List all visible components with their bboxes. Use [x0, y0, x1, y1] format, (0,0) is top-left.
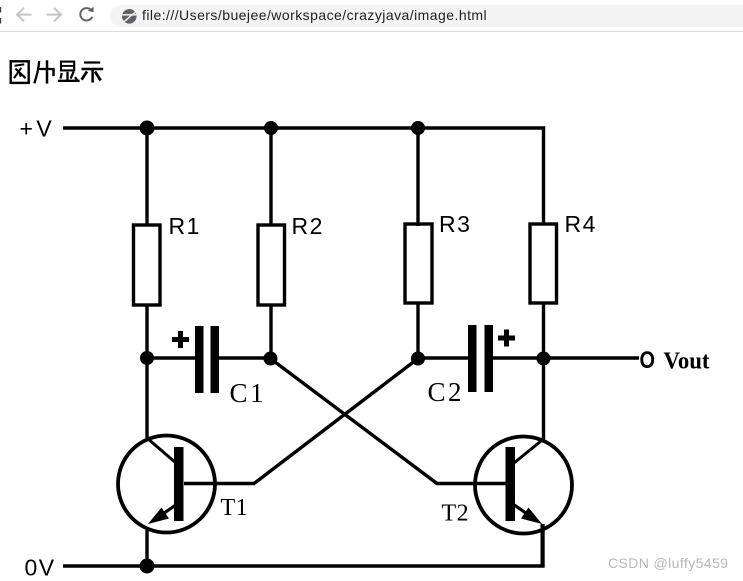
forward arrow [46, 6, 64, 24]
wire R2 top drop [269, 128, 272, 226]
char 显 [58, 62, 80, 81]
node dot: C2 right [537, 352, 551, 366]
wire R2 bottom [269, 305, 272, 358]
wire: 0V bottom rail [63, 524, 543, 566]
node dot: rail/R1 [140, 121, 155, 136]
wire C1 right lead [219, 356, 271, 359]
browser chrome bar [0, 0, 743, 32]
char 片 [34, 60, 54, 83]
C2 polarity + [498, 330, 515, 347]
wire R4 bottom [542, 303, 545, 358]
wire R3 bottom [416, 303, 419, 358]
svg-text:T2: T2 [442, 501, 470, 527]
wire cross-coupling C1 node to T2 base [271, 359, 506, 484]
wire C2 right lead [493, 356, 544, 359]
wire R3 top drop [416, 128, 419, 226]
svg-text:R3: R3 [439, 211, 471, 237]
svg-text:R2: R2 [292, 213, 324, 239]
char 图 [11, 61, 29, 83]
svg-text:T1: T1 [221, 495, 249, 521]
capacitor C2 plates [468, 325, 493, 392]
wire: +V top rail [63, 128, 544, 224]
wire cross-coupling C2 node to T1 base [184, 359, 418, 484]
edge artifact marks [0, 0, 6, 31]
resistor R2 [258, 225, 285, 305]
back arrow [14, 6, 32, 24]
wire R1 bottom [145, 305, 148, 358]
wire R1 top drop [145, 128, 148, 226]
svg-text:C1: C1 [230, 378, 267, 408]
wire T2 collector drop [542, 358, 545, 441]
node dot: rail/R2 [264, 121, 278, 135]
svg-text:R4: R4 [565, 211, 597, 237]
resistor R4 [530, 224, 557, 303]
C1 polarity + [172, 331, 189, 348]
wire T1 emitter drop [145, 528, 148, 566]
node dot: rail/R3 [411, 121, 425, 135]
wire Vout lead [544, 356, 640, 359]
svg-text:Vout: Vout [664, 349, 710, 375]
node dot: C1 right [264, 352, 278, 366]
svg-text:O: O [640, 347, 656, 374]
char 示 [82, 63, 104, 83]
transistor T2 [475, 437, 572, 567]
wire C2 left lead [418, 356, 468, 359]
svg-text:CSDN @luffy5459: CSDN @luffy5459 [608, 555, 728, 571]
wire C1 left lead [147, 356, 195, 359]
globe icon [121, 8, 138, 25]
wire T1 collector drop [145, 358, 148, 440]
node dot: C1 left [140, 351, 154, 365]
svg-text:R1: R1 [169, 213, 201, 239]
svg-text:0V: 0V [25, 555, 56, 581]
address pill [110, 5, 743, 27]
reload icon [78, 6, 96, 24]
url text [142, 0, 487, 32]
page title 图片显示 drawn as vector strokes [0, 55, 120, 95]
resistor R3 [405, 224, 432, 303]
resistor R1 [134, 225, 161, 305]
node dot: 0V rail / T1 emitter [140, 559, 155, 574]
svg-text:C2: C2 [428, 377, 465, 407]
capacitor C1 plates [195, 326, 219, 393]
transistor T1 [118, 436, 215, 533]
node dot: C2 left [411, 352, 425, 366]
svg-text:+V: +V [20, 116, 56, 142]
